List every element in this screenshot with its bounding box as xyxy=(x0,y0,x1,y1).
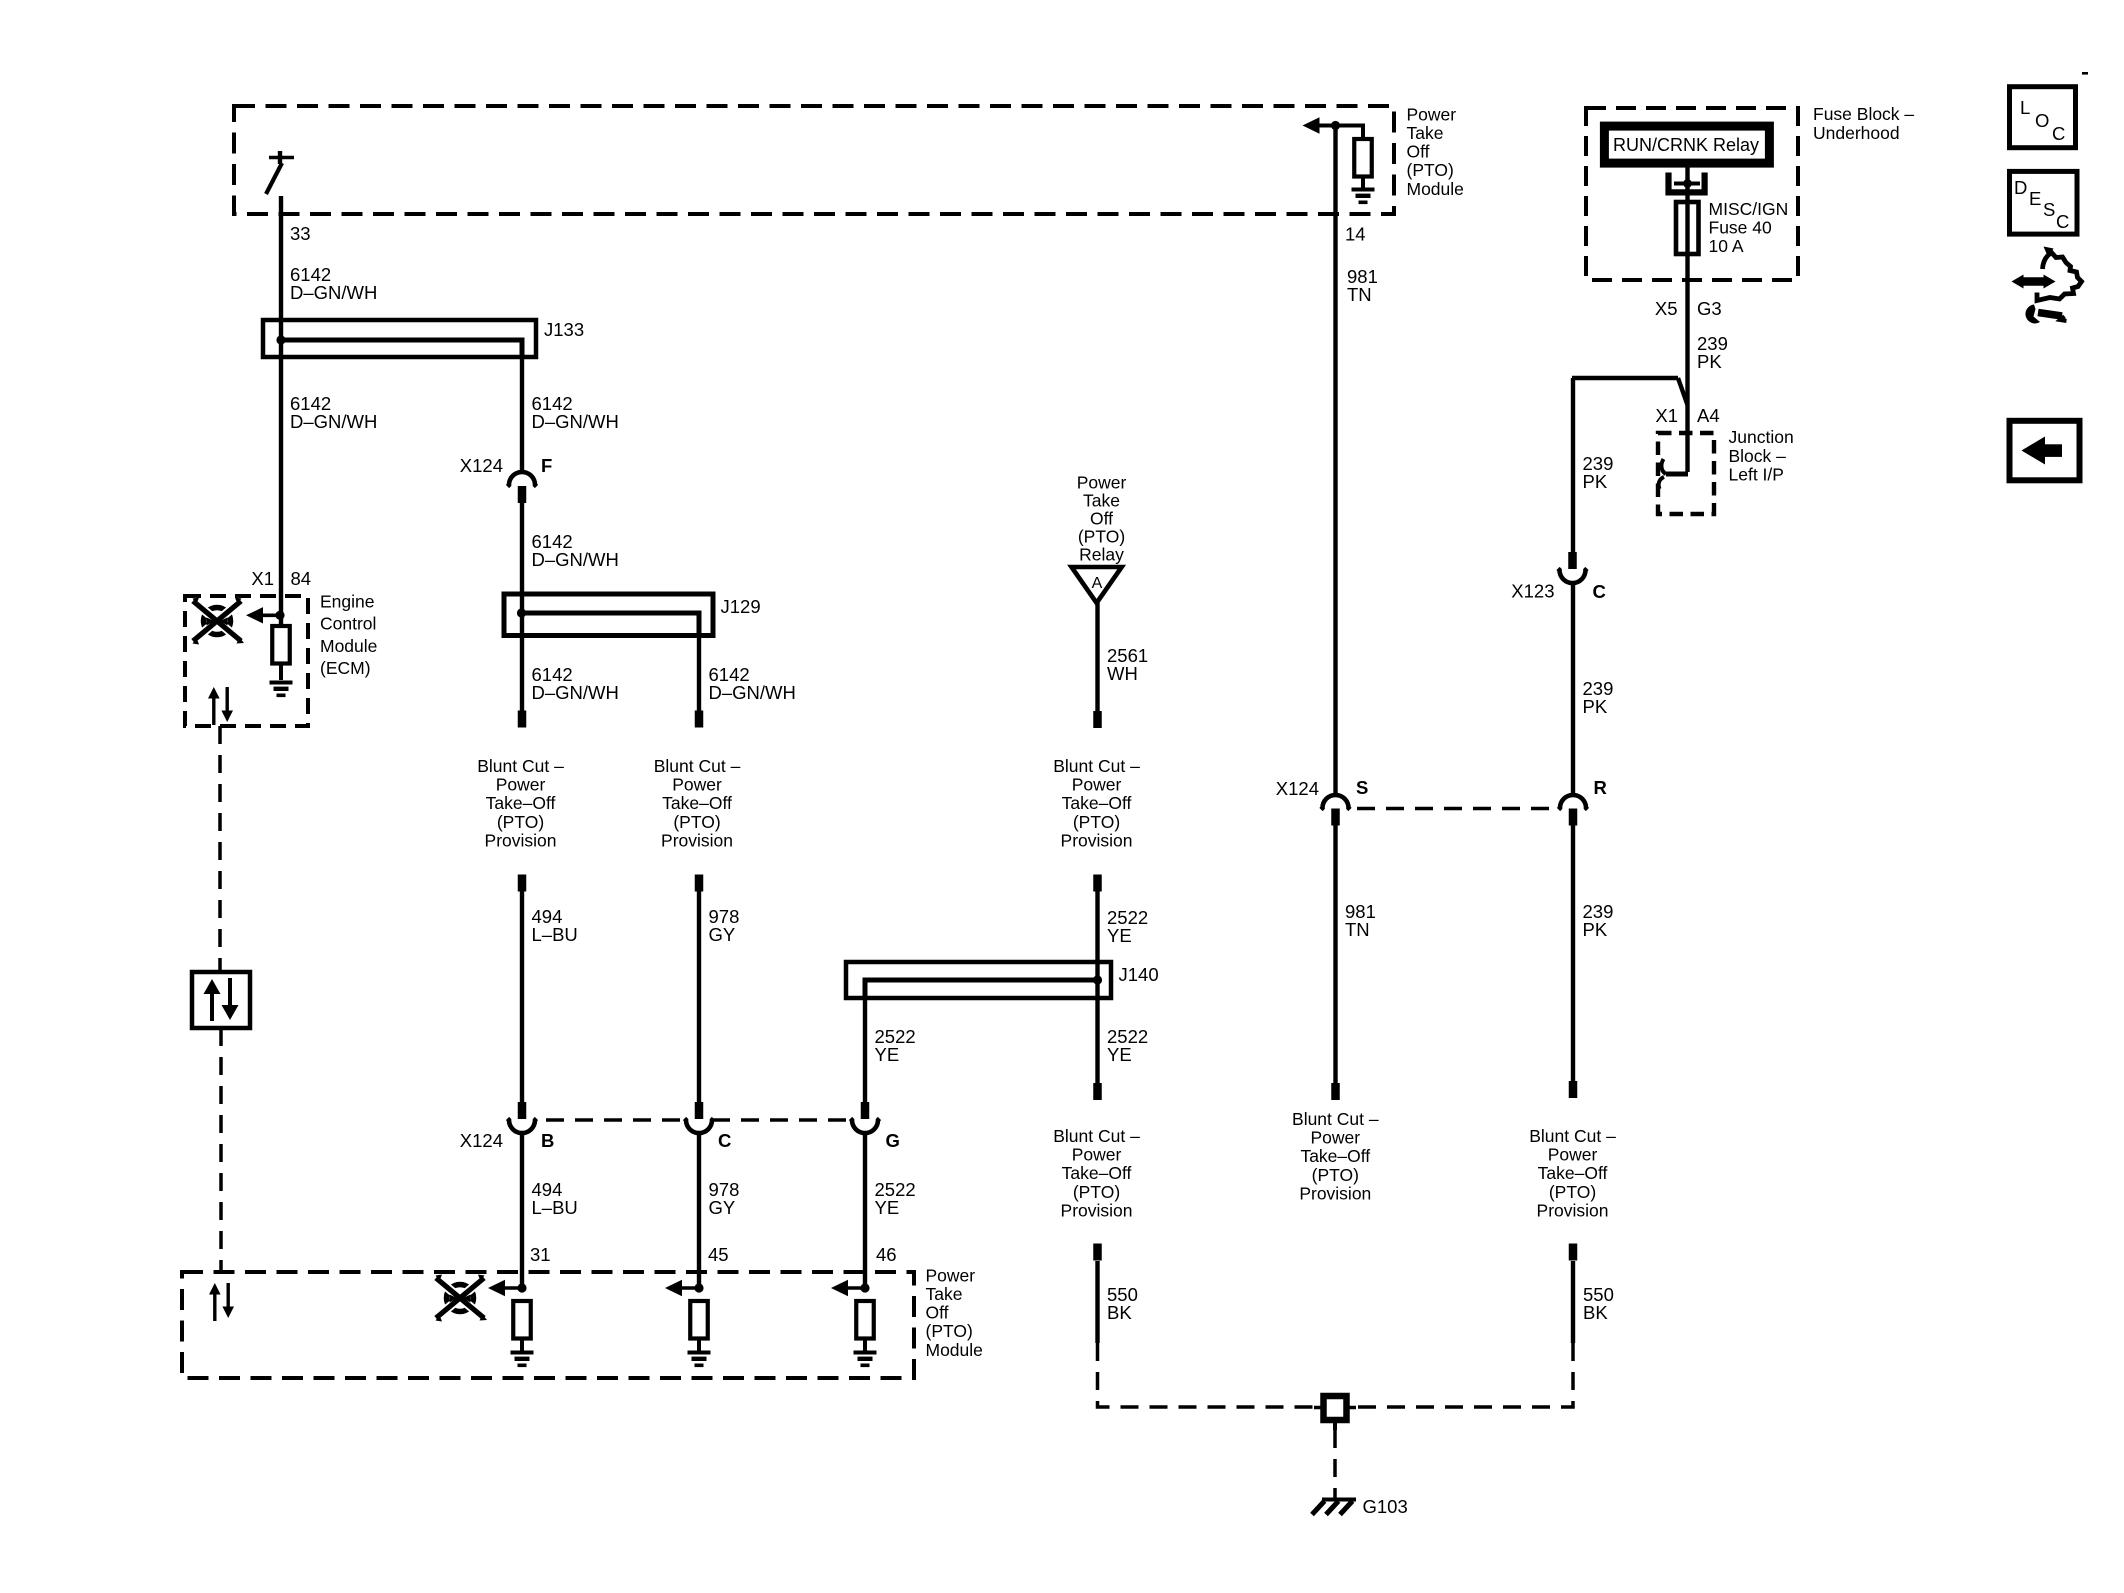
svg-text:(ECM): (ECM) xyxy=(320,658,371,678)
svg-text:C: C xyxy=(2052,123,2065,144)
svg-text:J129: J129 xyxy=(721,596,761,617)
svg-text:TN: TN xyxy=(1345,919,1370,940)
svg-text:PK: PK xyxy=(1583,696,1608,717)
svg-text:X5: X5 xyxy=(1655,298,1678,319)
svg-text:PK: PK xyxy=(1583,919,1608,940)
svg-text:45: 45 xyxy=(708,1244,729,1265)
svg-text:A4: A4 xyxy=(1697,405,1720,426)
svg-text:84: 84 xyxy=(291,568,312,589)
svg-text:(PTO): (PTO) xyxy=(1078,527,1125,547)
svg-text:D–GN/WH: D–GN/WH xyxy=(709,682,796,703)
svg-text:O: O xyxy=(2035,110,2049,131)
svg-text:TN: TN xyxy=(1347,284,1372,305)
svg-text:D–GN/WH: D–GN/WH xyxy=(290,282,377,303)
svg-text:G103: G103 xyxy=(1363,1496,1408,1517)
svg-text:31: 31 xyxy=(530,1244,551,1265)
svg-text:X124: X124 xyxy=(460,1130,503,1151)
svg-text:D–GN/WH: D–GN/WH xyxy=(532,682,619,703)
svg-text:Underhood: Underhood xyxy=(1813,123,1900,143)
svg-text:X1: X1 xyxy=(251,568,274,589)
svg-text:Fuse 40: Fuse 40 xyxy=(1709,218,1772,238)
svg-text:BK: BK xyxy=(1583,1302,1608,1323)
svg-text:YE: YE xyxy=(875,1197,900,1218)
svg-text:Off: Off xyxy=(1090,509,1113,529)
svg-text:Power: Power xyxy=(1077,473,1127,493)
svg-text:YE: YE xyxy=(1107,1044,1132,1065)
svg-text:33: 33 xyxy=(290,223,311,244)
svg-text:J140: J140 xyxy=(1119,964,1159,985)
svg-text:G: G xyxy=(886,1130,900,1151)
svg-text:GY: GY xyxy=(709,1197,736,1218)
svg-text:46: 46 xyxy=(876,1244,897,1265)
svg-text:B: B xyxy=(541,1130,554,1151)
svg-text:YE: YE xyxy=(875,1044,900,1065)
svg-text:Relay: Relay xyxy=(1079,545,1124,565)
svg-text:Junction: Junction xyxy=(1729,427,1794,447)
svg-text:G3: G3 xyxy=(1697,298,1722,319)
svg-text:C: C xyxy=(718,1130,731,1151)
svg-text:D: D xyxy=(2014,177,2027,198)
svg-text:Fuse Block –: Fuse Block – xyxy=(1813,104,1914,124)
svg-text:C: C xyxy=(1593,581,1606,602)
svg-text:BK: BK xyxy=(1107,1302,1132,1323)
svg-text:PK: PK xyxy=(1697,351,1722,372)
svg-text:E: E xyxy=(2029,188,2041,209)
svg-text:RUN/CRNK Relay: RUN/CRNK Relay xyxy=(1613,135,1759,155)
svg-text:Left I/P: Left I/P xyxy=(1729,465,1784,485)
svg-text:L–BU: L–BU xyxy=(532,1197,578,1218)
svg-text:F: F xyxy=(541,455,552,476)
svg-text:D–GN/WH: D–GN/WH xyxy=(532,549,619,570)
svg-text:X123: X123 xyxy=(1511,581,1554,602)
svg-text:X124: X124 xyxy=(460,455,503,476)
svg-text:PK: PK xyxy=(1583,471,1608,492)
svg-text:R: R xyxy=(1594,777,1607,798)
svg-text:Engine: Engine xyxy=(320,591,375,611)
svg-text:Module: Module xyxy=(320,636,377,656)
svg-text:D–GN/WH: D–GN/WH xyxy=(290,411,377,432)
svg-text:A: A xyxy=(1092,575,1103,592)
svg-text:J133: J133 xyxy=(544,319,584,340)
svg-text:GY: GY xyxy=(709,924,736,945)
svg-text:L: L xyxy=(2020,97,2030,118)
svg-text:C: C xyxy=(2056,211,2069,232)
svg-text:S: S xyxy=(2043,199,2055,220)
svg-text:L–BU: L–BU xyxy=(532,924,578,945)
svg-text:S: S xyxy=(1356,777,1368,798)
svg-text:Block –: Block – xyxy=(1729,446,1787,466)
svg-text:MISC/IGN: MISC/IGN xyxy=(1709,199,1789,219)
svg-text:YE: YE xyxy=(1107,925,1132,946)
svg-text:Take: Take xyxy=(1083,491,1120,511)
svg-text:X124: X124 xyxy=(1276,778,1319,799)
svg-text:X1: X1 xyxy=(1655,405,1678,426)
svg-text:WH: WH xyxy=(1107,663,1138,684)
svg-text:Control: Control xyxy=(320,614,376,634)
svg-text:10 A: 10 A xyxy=(1709,236,1744,256)
svg-text:D–GN/WH: D–GN/WH xyxy=(532,411,619,432)
svg-text:14: 14 xyxy=(1345,224,1366,245)
